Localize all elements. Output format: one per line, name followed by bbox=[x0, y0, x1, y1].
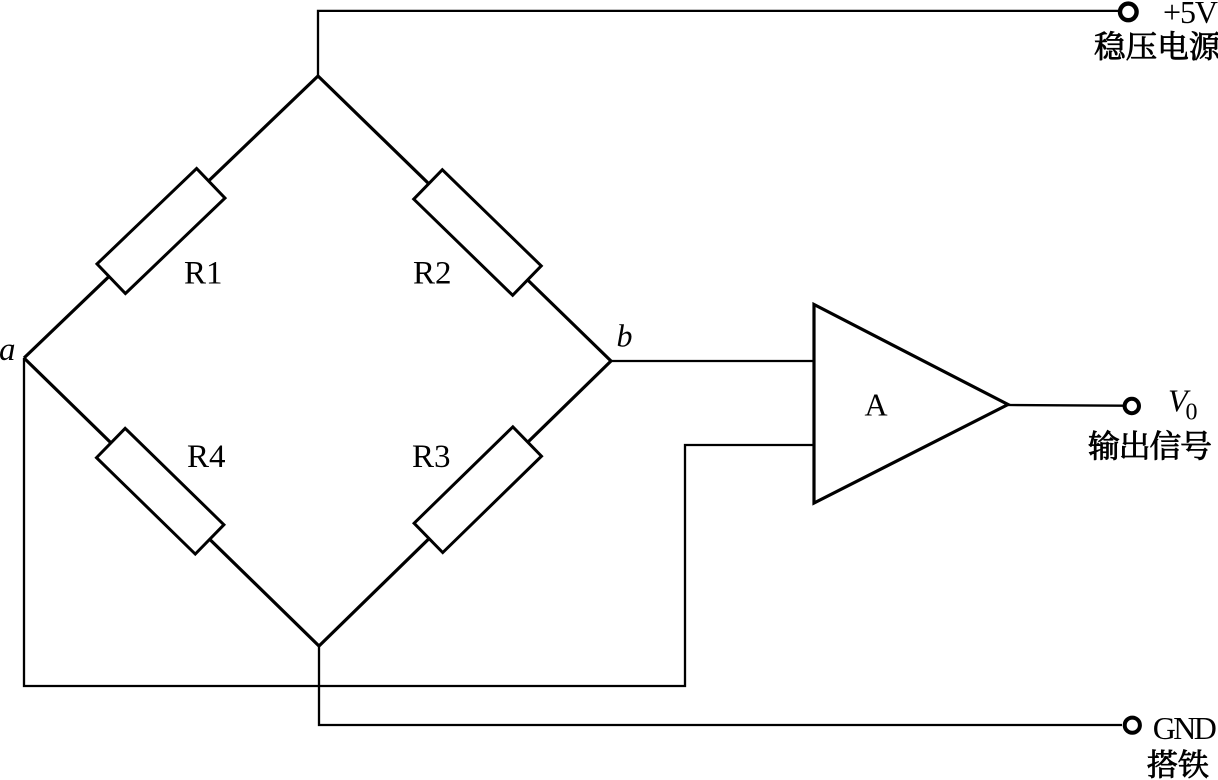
svg-text:0: 0 bbox=[1186, 400, 1198, 426]
svg-text:b: b bbox=[617, 318, 633, 354]
wire: node a down and around to amplifier lower input bbox=[24, 358, 815, 686]
svg-text:a: a bbox=[0, 332, 16, 368]
wire: amplifier output to V0 terminal bbox=[1008, 404, 1123, 407]
wire: bridge arm bottom to b (R3 arm) bbox=[319, 361, 611, 646]
wire: bridge arm top to b (R2 arm) bbox=[318, 76, 611, 361]
svg-text:GND: GND bbox=[1153, 710, 1217, 746]
svg-text:R3: R3 bbox=[412, 439, 451, 475]
wire: bridge arm a to bottom (R4 arm) bbox=[24, 358, 319, 646]
wire: bridge bottom vertex down to GND rail bbox=[319, 646, 1122, 725]
resistor R4 body bbox=[96, 428, 223, 554]
terminal +5V circle bbox=[1120, 4, 1137, 21]
label 搭铁 (chassis ground) bbox=[1148, 749, 1209, 778]
terminal V0 circle bbox=[1125, 399, 1139, 413]
label 输出信号 (output signal) bbox=[1089, 430, 1211, 460]
svg-text:A: A bbox=[865, 387, 888, 423]
svg-text:R2: R2 bbox=[413, 256, 452, 292]
resistor R2 body bbox=[414, 170, 542, 296]
wire: bridge top vertex up to +5V rail bbox=[318, 11, 1121, 76]
label 稳压电源 (regulated power supply) bbox=[1095, 31, 1218, 60]
svg-text:R1: R1 bbox=[184, 256, 223, 292]
resistor R3 body bbox=[414, 427, 541, 553]
resistor R1 body bbox=[97, 168, 225, 293]
svg-text:R4: R4 bbox=[187, 439, 226, 475]
op-amp A triangle bbox=[814, 305, 1008, 504]
wire: bridge arm a to top (R1 arm) bbox=[24, 76, 318, 358]
terminal GND circle bbox=[1125, 718, 1140, 733]
wire: node b to amplifier upper input bbox=[611, 360, 815, 362]
svg-text:+5V: +5V bbox=[1163, 0, 1218, 30]
